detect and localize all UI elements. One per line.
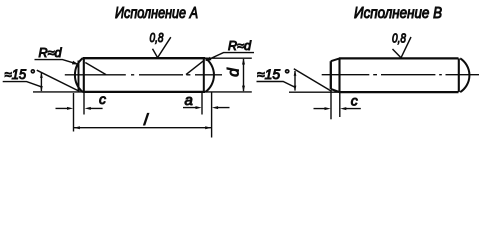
fig A: pin top edge xyxy=(83,57,206,59)
svg-text:l: l xyxy=(143,111,149,129)
svg-text:0,8: 0,8 xyxy=(392,32,406,46)
fig B: top corner chamfer xyxy=(331,58,340,61)
fig A: dim d extension lines xyxy=(206,57,252,59)
fig A: dim a line with arrows xyxy=(183,107,230,109)
fig B: right spherical end arc xyxy=(460,58,469,92)
fig A: left sphere tangent line xyxy=(83,58,85,92)
fig B: bottom corner chamfer xyxy=(331,89,340,92)
fig B: center line xyxy=(322,74,479,76)
svg-text:R≈d: R≈d xyxy=(228,39,252,53)
fig B: pin top edge xyxy=(339,57,459,59)
svg-text:c: c xyxy=(351,92,358,108)
svg-text:d: d xyxy=(225,67,242,77)
fig A: chamfer silhouette extended to 15 deg callout xyxy=(37,70,80,91)
svg-text:a: a xyxy=(185,92,193,109)
fig B: dim c line with arrows xyxy=(314,108,361,110)
fig A: right spherical end arc xyxy=(206,58,214,92)
fig A: dim d line with arrows xyxy=(243,59,245,91)
svg-text:≈15 °: ≈15 ° xyxy=(5,67,36,82)
fig B: right sphere tangent line xyxy=(458,58,460,92)
fig A: chamfer cone line right xyxy=(186,60,204,74)
fig B: dim c extension lines xyxy=(330,92,332,119)
fig A: left chamfer circle line xyxy=(78,61,80,92)
fig B: bottom edge thin extension for angle dim xyxy=(289,91,340,93)
svg-text:c: c xyxy=(99,91,106,107)
fig A: bottom edge thin extension for angle dim xyxy=(33,91,83,93)
fig B: angle dimension arrows xyxy=(294,71,296,91)
svg-text:0,8: 0,8 xyxy=(150,31,164,45)
fig A: right sphere tangent line xyxy=(203,58,205,92)
fig A: center line xyxy=(65,74,222,76)
svg-text:≈15 °: ≈15 ° xyxy=(257,67,290,82)
svg-text:R≈d: R≈d xyxy=(39,46,63,60)
fig B: chamfer line xyxy=(338,58,340,92)
fig A: dim c line with arrows xyxy=(56,107,103,109)
svg-text:Исполнение А: Исполнение А xyxy=(115,5,198,22)
fig A: dim l line with arrows xyxy=(74,127,212,129)
fig A: pin bottom edge xyxy=(83,91,206,93)
fig A: chamfer cone line left xyxy=(85,63,106,75)
fig A: dim c extension lines xyxy=(73,93,75,132)
fig B: left end face xyxy=(330,61,332,89)
fig A: angle dimension arrows xyxy=(40,73,42,91)
fig A: dim a extension lines xyxy=(201,93,203,115)
fig B: pin bottom edge xyxy=(339,91,459,93)
fig A: left spherical end arc xyxy=(75,58,83,92)
fig B: chamfer silhouette extended to 15 deg callout xyxy=(294,69,332,92)
svg-text:Исполнение В: Исполнение В xyxy=(354,5,442,22)
